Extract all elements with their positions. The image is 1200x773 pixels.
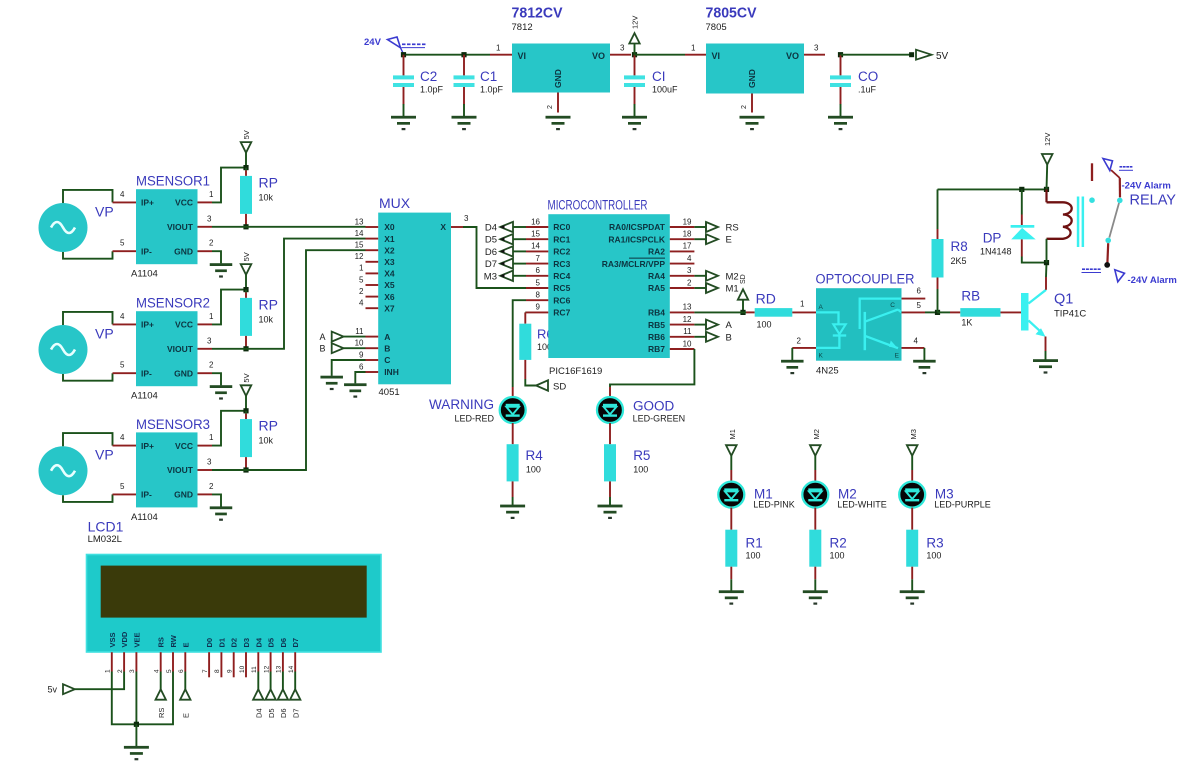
junction VIOUT2: [243, 346, 248, 351]
wire R8 top from rail: [937, 189, 939, 229]
wire R1 to ground: [730, 567, 732, 580]
led WARNING (red): [500, 397, 526, 423]
svg-text:A1104: A1104: [131, 269, 158, 280]
svg-text:CI: CI: [652, 69, 666, 84]
svg-text:1: 1: [209, 312, 214, 321]
svg-text:D7: D7: [291, 708, 300, 718]
svg-text:19: 19: [683, 217, 692, 226]
opto internal phototransistor: [864, 312, 867, 350]
svg-text:VEE: VEE: [132, 632, 141, 647]
svg-text:GOOD: GOOD: [633, 399, 675, 414]
svg-text:X1: X1: [384, 234, 395, 244]
junction at C1: [461, 52, 466, 57]
svg-text:X: X: [440, 222, 446, 232]
wire RC7 to R6: [524, 311, 527, 313]
svg-text:VI: VI: [518, 51, 527, 61]
pin X1 stub of MUX: [366, 238, 379, 240]
svg-text:PIC16F1619: PIC16F1619: [549, 366, 602, 377]
wire RW down to ground rail: [136, 672, 173, 725]
svg-text:11: 11: [683, 327, 692, 336]
pin RC5 stub: [526, 287, 548, 289]
wire C to ground: [332, 360, 366, 376]
svg-text:100: 100: [746, 551, 761, 561]
pin 2 stub GND: [198, 250, 213, 252]
pin 2 stub of 7805: [751, 94, 753, 113]
svg-text:RA5: RA5: [648, 283, 665, 293]
junction 5V/RP1: [243, 165, 248, 170]
ground below R5: [598, 505, 623, 519]
wire into led M1: [730, 470, 732, 483]
svg-text:RC4: RC4: [553, 271, 570, 281]
resistor RD 100: [755, 308, 793, 317]
pin 1 stub VCC: [198, 201, 213, 203]
relay NO contact dot: [1105, 238, 1111, 244]
svg-text:1: 1: [105, 669, 112, 673]
resistor R3 100: [906, 530, 918, 567]
svg-text:CO: CO: [858, 69, 878, 84]
power terminal 5V sensor1: [241, 130, 252, 167]
pin RC1 stub: [526, 238, 548, 240]
wire opto pin2 to ground: [791, 348, 793, 360]
svg-text:5V: 5V: [242, 252, 251, 261]
terminal M1 input top: [726, 429, 737, 470]
wire RP3 to VIOUT node: [245, 457, 247, 470]
svg-text:15: 15: [355, 241, 364, 250]
wire RD to opto pin1: [792, 311, 816, 313]
resistor RP1 10k: [240, 176, 252, 214]
pin X4 stub of MUX: [366, 272, 379, 274]
pin X output stub: [451, 226, 463, 228]
svg-text:LM032L: LM032L: [88, 534, 122, 545]
wire into led M3: [911, 470, 913, 483]
pin A stub of MUX: [366, 336, 379, 338]
svg-text:INH: INH: [384, 367, 399, 377]
ground below lcd: [124, 746, 149, 760]
wire lcd D5 to terminal: [270, 672, 272, 690]
wire INH to ground: [355, 372, 365, 383]
microcontroller body: [548, 214, 670, 358]
terminal B input: [319, 343, 365, 354]
wire VSS to ground rail: [112, 672, 137, 725]
svg-text:4: 4: [120, 312, 125, 321]
svg-text:.1uF: .1uF: [858, 85, 877, 95]
svg-text:8: 8: [536, 291, 541, 300]
wire VP3 plus to IP+: [63, 433, 113, 446]
pin B stub of MUX: [366, 347, 379, 349]
svg-text:5: 5: [120, 361, 125, 370]
svg-text:4: 4: [359, 299, 364, 308]
svg-text:X7: X7: [384, 303, 395, 313]
wire GND pin to ground: [212, 251, 221, 263]
pin 4 stub IP+ MSENSOR2: [113, 323, 137, 325]
wire 12V rail: [938, 188, 1047, 190]
terminal A input: [319, 332, 365, 342]
svg-text:GND: GND: [174, 490, 193, 500]
power terminal 12V at CI: [629, 16, 639, 55]
wire pin1 of 7812: [490, 54, 512, 56]
ground below R1: [719, 590, 744, 604]
capacitor CO .1uF: [828, 55, 878, 131]
power terminal 5V sensor2: [241, 252, 252, 289]
svg-text:14: 14: [288, 665, 295, 673]
svg-text:A1104: A1104: [131, 391, 158, 402]
svg-text:D2: D2: [230, 638, 239, 648]
lcd screen: [101, 566, 367, 618]
svg-text:IP-: IP-: [141, 368, 152, 378]
pin 6 stub of opto: [902, 298, 926, 300]
diode DP 1N4148: [1021, 189, 1023, 214]
svg-text:5V: 5V: [936, 51, 949, 62]
svg-text:IP-: IP-: [141, 490, 152, 500]
svg-text:4: 4: [914, 337, 919, 346]
pin RB5 stub: [670, 324, 695, 326]
ground below 7805: [740, 116, 765, 130]
ground below R2: [803, 590, 828, 604]
svg-text:4N25: 4N25: [816, 366, 839, 377]
svg-text:VO: VO: [592, 51, 605, 61]
pin 3 stub VIOUT: [198, 348, 213, 350]
resistor RB 1K: [960, 308, 1000, 317]
led M3 LED-PURPLE: [899, 482, 925, 508]
pin RC2 stub: [526, 250, 548, 252]
terminal D7 below lcd: [290, 689, 300, 699]
svg-text:10: 10: [683, 339, 692, 348]
lcd pin 8 stub: [220, 652, 222, 677]
svg-text:2: 2: [797, 337, 802, 346]
pin 3 stub VIOUT: [198, 226, 213, 228]
svg-text:6: 6: [536, 266, 541, 275]
svg-text:12: 12: [263, 665, 270, 673]
svg-text:4: 4: [687, 254, 692, 263]
svg-text:3: 3: [207, 214, 212, 223]
power terminal 5V sensor3: [241, 373, 252, 410]
svg-text:B: B: [319, 344, 325, 354]
svg-text:10k: 10k: [259, 192, 274, 202]
svg-text:1: 1: [800, 300, 805, 309]
svg-text:4: 4: [120, 190, 125, 199]
svg-text:3: 3: [620, 44, 625, 53]
wire junction to RP2: [245, 290, 247, 293]
wire RC6 to WARNING led: [513, 300, 526, 387]
wire lcd D7 to terminal: [294, 672, 296, 690]
resistor R5 100: [604, 444, 616, 481]
resistor R1 100: [725, 530, 737, 567]
svg-text:IP+: IP+: [141, 198, 154, 208]
pin RA5 stub: [670, 287, 695, 289]
wire RB7 to GOOD led: [610, 349, 694, 387]
wire VP2 minus to IP-: [63, 373, 113, 381]
svg-text:RA1/ICSPCLK: RA1/ICSPCLK: [608, 234, 666, 244]
svg-text:IP+: IP+: [141, 320, 154, 330]
junction at CO: [838, 52, 843, 57]
wire GOOD led to R5: [609, 423, 611, 444]
svg-text:D6: D6: [279, 708, 288, 718]
svg-text:5v: 5v: [48, 685, 58, 695]
svg-text:RB7: RB7: [648, 344, 665, 354]
svg-text:RB: RB: [961, 289, 980, 304]
svg-text:RA2: RA2: [648, 247, 665, 257]
svg-text:MICROCONTROLLER: MICROCONTROLLER: [548, 198, 648, 213]
svg-text:VCC: VCC: [175, 441, 193, 451]
svg-text:D6: D6: [485, 247, 497, 258]
ground below R4: [500, 505, 525, 519]
svg-text:1: 1: [209, 190, 214, 199]
svg-text:3: 3: [207, 336, 212, 345]
svg-text:D3: D3: [242, 638, 251, 648]
terminal E output: [694, 234, 731, 246]
resistor R6 100 body: [519, 324, 531, 360]
wire X1 net (VIOUT2 to MUX): [212, 239, 366, 349]
junction R8/RB node: [935, 310, 940, 315]
svg-text:E: E: [181, 642, 190, 647]
wire RB4 to RD: [694, 311, 746, 313]
svg-text:MSENSOR3: MSENSOR3: [136, 417, 210, 432]
svg-text:100: 100: [757, 320, 772, 330]
svg-text:RP: RP: [259, 418, 278, 434]
svg-text:2: 2: [547, 105, 554, 109]
wire VP1 plus to IP+: [63, 190, 113, 203]
lcd pin 4 stub: [160, 652, 162, 671]
svg-text:10k: 10k: [259, 436, 274, 446]
svg-text:10: 10: [239, 665, 246, 673]
svg-text:15: 15: [531, 230, 540, 239]
svg-text:RA0/ICSPDAT: RA0/ICSPDAT: [609, 222, 666, 232]
ground below opto pin4: [913, 360, 936, 374]
svg-text:D5: D5: [267, 708, 276, 718]
junction 5V/RP3: [243, 408, 248, 413]
svg-text:5: 5: [917, 301, 922, 310]
svg-text:VO: VO: [786, 51, 799, 61]
svg-text:7: 7: [536, 254, 541, 263]
power terminal 12V relay: [1042, 133, 1053, 190]
svg-text:C2: C2: [420, 69, 437, 84]
wire lcd D4 to terminal: [257, 672, 259, 690]
wire led to R2: [814, 508, 816, 530]
svg-text:7805: 7805: [706, 22, 727, 33]
wire junction to RP3: [245, 411, 247, 414]
wire VP1 minus to IP-: [63, 251, 113, 259]
terminal A output: [694, 320, 732, 332]
pin RA0/ICSPDAT stub: [670, 226, 695, 228]
terminal D7 input: [485, 258, 526, 270]
pin X5 stub of MUX: [366, 284, 379, 286]
svg-text:5: 5: [120, 482, 125, 491]
wire VP2 plus to IP+: [63, 312, 113, 325]
svg-text:1.0pF: 1.0pF: [420, 85, 444, 95]
svg-text:X6: X6: [384, 292, 395, 302]
junction rail/coil/12V: [1044, 187, 1049, 192]
svg-text:SD: SD: [553, 382, 566, 393]
regulator 7805 body: [706, 44, 804, 94]
svg-text:RW: RW: [169, 634, 178, 647]
wire R2 to ground: [814, 567, 816, 580]
terminal 5V output: [909, 50, 948, 62]
svg-text:1: 1: [359, 264, 364, 273]
svg-text:6: 6: [359, 362, 364, 371]
svg-text:R3: R3: [926, 536, 943, 551]
svg-text:M1: M1: [728, 429, 737, 439]
svg-text:R5: R5: [633, 448, 650, 463]
terminal SD output left: [536, 380, 548, 390]
svg-text:11: 11: [251, 666, 258, 673]
svg-text:GND: GND: [553, 69, 563, 88]
wire Q1 emitter to ground: [1045, 337, 1047, 352]
svg-text:5: 5: [120, 239, 125, 248]
svg-text:VI: VI: [712, 51, 721, 61]
svg-text:GND: GND: [174, 368, 193, 378]
junction VIOUT1: [243, 224, 248, 229]
svg-text:M1: M1: [726, 284, 739, 295]
terminal D6 input: [485, 246, 526, 258]
pin 4 stub IP+ MSENSOR1: [113, 201, 137, 203]
svg-text:VIOUT: VIOUT: [167, 344, 194, 354]
svg-text:5: 5: [166, 669, 173, 673]
wire 24V rail to 7812 VI: [404, 54, 491, 56]
svg-text:M3: M3: [484, 271, 497, 282]
svg-text:1K: 1K: [961, 318, 972, 328]
wire VCC up to 5V junction: [212, 290, 246, 325]
svg-text:IP+: IP+: [141, 441, 154, 451]
pin 5 stub IP- MSENSOR3: [113, 493, 137, 495]
wire VEE down: [135, 672, 137, 725]
ground sensor1: [210, 263, 233, 277]
wire CO to 5V terminal: [841, 54, 913, 56]
svg-text:13: 13: [355, 217, 364, 226]
wire Q1 collector: [1045, 277, 1047, 290]
wire opto pin4 to ground: [923, 348, 925, 360]
terminal D5 input: [485, 234, 526, 246]
led GOOD (green): [597, 397, 623, 423]
svg-text:RA3/MCLR/VPP: RA3/MCLR/VPP: [602, 259, 666, 269]
generator VP3 (sine source): [39, 446, 114, 495]
wire RD left lead: [746, 311, 755, 313]
svg-text:2: 2: [209, 361, 214, 370]
pin C stub of MUX: [366, 359, 379, 361]
wire VCC up to 5V junction: [212, 411, 246, 446]
svg-text:1: 1: [496, 44, 501, 53]
lcd pin 13 stub: [282, 652, 284, 671]
svg-text:LED-WHITE: LED-WHITE: [837, 500, 887, 510]
svg-text:2: 2: [117, 669, 124, 673]
svg-text:7: 7: [202, 669, 209, 673]
svg-text:5V: 5V: [242, 373, 251, 382]
svg-text:R1: R1: [746, 536, 763, 551]
svg-text:4051: 4051: [379, 387, 400, 398]
resistor R2 100: [809, 530, 821, 567]
wire RP2 to VIOUT node: [245, 336, 247, 349]
svg-text:100: 100: [926, 551, 941, 561]
svg-text:TIP41C: TIP41C: [1054, 309, 1086, 320]
svg-text:C: C: [384, 355, 390, 365]
svg-text:RB5: RB5: [648, 320, 665, 330]
svg-text:100uF: 100uF: [652, 85, 678, 95]
lcd pin 12 stub: [270, 652, 272, 671]
svg-text:C: C: [890, 302, 895, 309]
terminal D5 below lcd: [265, 689, 275, 699]
pin 5 stub IP- MSENSOR2: [113, 372, 137, 374]
svg-text:RC6: RC6: [553, 295, 570, 305]
svg-text:A: A: [819, 304, 824, 311]
svg-text:X2: X2: [384, 245, 395, 255]
wire GND pin to ground: [212, 494, 221, 506]
wire lcd E to terminal: [184, 672, 186, 690]
relay NC contact dot: [1089, 197, 1095, 203]
ground below 7812: [546, 116, 571, 130]
pin 2 stub of opto: [792, 347, 816, 349]
lcd LM032L body: [87, 555, 382, 653]
junction coil bottom: [1044, 260, 1049, 265]
wire VP3 minus to IP-: [63, 494, 113, 502]
svg-text:LCD1: LCD1: [88, 519, 124, 535]
relay core bars: [1077, 197, 1080, 248]
svg-text:VP: VP: [95, 203, 114, 219]
generator VP1 (sine source): [39, 203, 114, 252]
pin 4 stub IP+ MSENSOR3: [113, 445, 137, 447]
svg-text:-24V Alarm: -24V Alarm: [1122, 181, 1171, 192]
pin RA1/ICSPCLK stub: [670, 238, 695, 240]
wire RB to Q1 base: [1001, 311, 1022, 313]
svg-text:VP: VP: [95, 447, 114, 463]
wire into led M2: [814, 470, 816, 483]
svg-text:RB4: RB4: [648, 308, 665, 318]
svg-text:14: 14: [531, 242, 540, 251]
generator VP2 (sine source): [39, 325, 114, 374]
wire R4 to ground: [512, 481, 514, 497]
svg-text:D5: D5: [485, 235, 497, 246]
ground sensor2: [210, 385, 233, 399]
svg-text:RC7: RC7: [553, 308, 570, 318]
terminal D4 below lcd: [253, 689, 263, 699]
svg-text:M2: M2: [812, 429, 821, 439]
svg-text:R2: R2: [830, 536, 847, 551]
svg-text:D4: D4: [255, 708, 264, 718]
wire WARNING led to R4: [512, 423, 514, 444]
terminal M3 input top: [907, 429, 918, 470]
svg-text:7805CV: 7805CV: [706, 6, 757, 22]
svg-text:D7: D7: [485, 259, 497, 270]
svg-text:2K5: 2K5: [951, 256, 967, 266]
svg-text:12: 12: [355, 252, 364, 261]
terminal SD up-arrow at RD: [738, 274, 748, 312]
terminal M1 output: [694, 283, 738, 295]
svg-text:8: 8: [214, 669, 221, 673]
wire pin1 of 7805: [685, 54, 706, 56]
svg-text:LED-PINK: LED-PINK: [753, 500, 795, 510]
terminal B output: [694, 332, 731, 344]
capacitor C2 1.0pF: [391, 55, 444, 131]
svg-text:VDD: VDD: [120, 631, 129, 647]
svg-text:C1: C1: [480, 69, 497, 84]
junction at C2: [401, 52, 406, 57]
svg-text:RP: RP: [259, 296, 278, 312]
svg-text:6: 6: [178, 669, 185, 673]
svg-text:1: 1: [209, 433, 214, 442]
terminal M2 input top: [810, 429, 821, 470]
svg-text:R4: R4: [526, 448, 544, 463]
svg-text:D0: D0: [205, 638, 214, 648]
led M1 LED-PINK: [718, 482, 744, 508]
relay pivot dot: [1117, 198, 1123, 204]
svg-text:2: 2: [209, 239, 214, 248]
lcd pin 7 stub: [208, 652, 210, 677]
svg-text:RD: RD: [756, 291, 776, 307]
terminal RS below lcd: [156, 689, 166, 699]
svg-text:OPTOCOUPLER: OPTOCOUPLER: [816, 272, 915, 287]
svg-text:-24V Alarm: -24V Alarm: [1128, 275, 1177, 286]
svg-text:GND: GND: [174, 246, 193, 256]
terminal D4 input: [485, 222, 526, 234]
svg-text:LED-GREEN: LED-GREEN: [633, 414, 686, 424]
